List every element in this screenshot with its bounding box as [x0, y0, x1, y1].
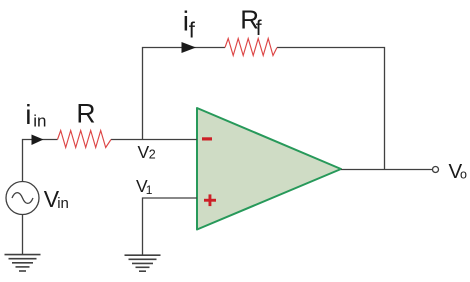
svg-text:f: f [189, 17, 196, 42]
svg-text:f: f [256, 17, 262, 40]
svg-text:in: in [57, 195, 69, 212]
svg-text:R: R [76, 99, 95, 129]
svg-text:2: 2 [149, 147, 156, 161]
svg-text:o: o [460, 167, 467, 181]
svg-text:i: i [25, 99, 31, 130]
svg-text:V: V [138, 142, 150, 162]
svg-text:1: 1 [146, 183, 153, 197]
svg-text:in: in [33, 112, 46, 131]
